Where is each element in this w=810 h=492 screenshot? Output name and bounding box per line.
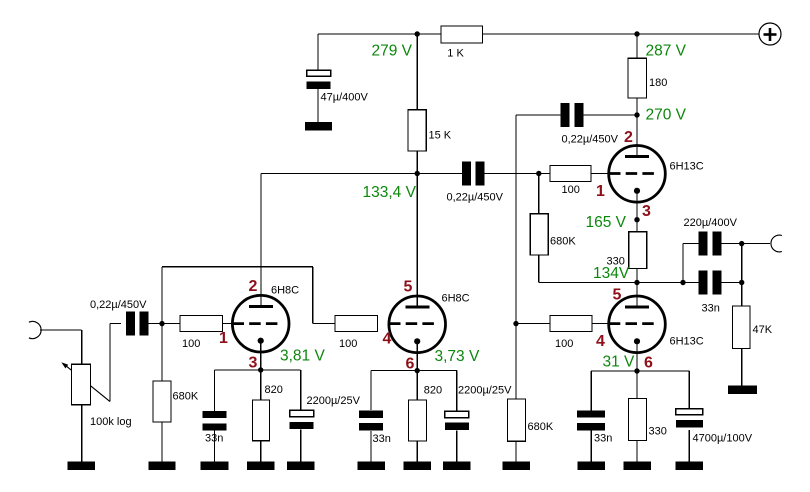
svg-text:6H13C: 6H13C: [670, 161, 704, 173]
svg-text:165 V: 165 V: [586, 214, 627, 231]
svg-text:100: 100: [182, 338, 200, 350]
svg-text:6H8C: 6H8C: [271, 285, 299, 297]
svg-text:6: 6: [644, 355, 653, 372]
svg-text:47µ/400V: 47µ/400V: [321, 92, 369, 104]
svg-text:15 K: 15 K: [429, 130, 452, 142]
svg-text:287 V: 287 V: [646, 43, 687, 60]
svg-text:680K: 680K: [528, 421, 554, 433]
svg-text:100k log: 100k log: [90, 416, 132, 428]
svg-text:180: 180: [649, 77, 667, 89]
svg-text:0,22µ/450V: 0,22µ/450V: [562, 134, 619, 146]
svg-text:0,22µ/450V: 0,22µ/450V: [90, 299, 147, 311]
svg-text:3,73 V: 3,73 V: [435, 348, 480, 365]
svg-text:5: 5: [613, 287, 622, 304]
svg-text:1: 1: [219, 330, 228, 347]
svg-text:100: 100: [562, 184, 580, 196]
svg-text:133,4 V: 133,4 V: [363, 184, 417, 201]
svg-text:6H13C: 6H13C: [670, 336, 704, 348]
svg-text:270 V: 270 V: [646, 107, 687, 124]
svg-text:1 K: 1 K: [447, 47, 464, 59]
svg-text:6: 6: [406, 356, 415, 373]
svg-text:31 V: 31 V: [603, 354, 636, 371]
svg-text:330: 330: [607, 256, 625, 268]
svg-text:47K: 47K: [753, 324, 773, 336]
svg-text:2200µ/25V: 2200µ/25V: [307, 395, 361, 407]
svg-text:33n: 33n: [205, 432, 223, 444]
svg-text:33n: 33n: [594, 433, 612, 445]
svg-text:4: 4: [596, 333, 605, 350]
svg-text:100: 100: [339, 338, 357, 350]
svg-text:1: 1: [596, 183, 605, 200]
svg-text:33n: 33n: [373, 433, 391, 445]
svg-text:220µ/400V: 220µ/400V: [684, 217, 738, 229]
svg-text:680K: 680K: [173, 391, 199, 403]
svg-text:2: 2: [249, 278, 258, 295]
svg-text:2: 2: [624, 129, 633, 146]
svg-text:100: 100: [555, 338, 573, 350]
svg-text:134V: 134V: [593, 265, 630, 282]
svg-text:3,81 V: 3,81 V: [280, 348, 325, 365]
svg-text:4: 4: [383, 331, 392, 348]
svg-text:4700µ/100V: 4700µ/100V: [693, 432, 753, 444]
svg-text:2200µ/25V: 2200µ/25V: [458, 385, 512, 397]
svg-text:33n: 33n: [702, 303, 720, 315]
svg-text:5: 5: [404, 279, 413, 296]
svg-text:680K: 680K: [550, 236, 576, 248]
svg-text:330: 330: [649, 426, 667, 438]
svg-text:279 V: 279 V: [372, 43, 413, 60]
svg-text:3: 3: [249, 355, 258, 372]
svg-text:6H8C: 6H8C: [442, 293, 470, 305]
svg-text:820: 820: [424, 385, 442, 397]
svg-text:3: 3: [642, 203, 651, 220]
svg-text:0,22µ/450V: 0,22µ/450V: [447, 192, 504, 204]
svg-text:820: 820: [265, 384, 283, 396]
